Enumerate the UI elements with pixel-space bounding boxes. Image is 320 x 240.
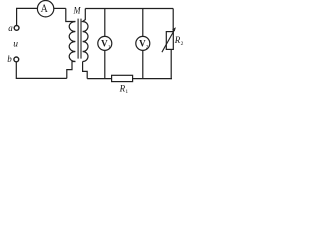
svg-text:M: M [73, 6, 82, 17]
wire secondary bottom rail right of R1 [133, 78, 172, 80]
transformer T secondary winding [83, 9, 88, 62]
wire primary bottom lead [67, 62, 76, 79]
voltmeter V1 [98, 36, 112, 50]
terminal b [14, 57, 19, 62]
voltmeter V2 [136, 36, 150, 50]
resistor R1 body [112, 75, 133, 81]
wire V2 branch top [142, 9, 144, 37]
svg-text:u: u [13, 40, 18, 50]
wire V1 branch top [104, 9, 106, 37]
transformer core [78, 19, 81, 59]
wire V1 branch bottom [104, 50, 106, 78]
transformer T primary winding [69, 22, 75, 62]
wire secondary bottom lead [83, 62, 88, 79]
wire primary top lead down [66, 8, 76, 21]
svg-text:1: 1 [125, 89, 128, 95]
svg-text:a: a [8, 23, 13, 33]
svg-text:b: b [7, 54, 12, 64]
svg-text:2: 2 [181, 41, 184, 47]
wire rheostat R2 bottom to bottom rail [170, 49, 173, 78]
terminal a [14, 26, 19, 31]
wire primary bottom rail [16, 62, 67, 79]
wire right edge down to rheostat R2 [172, 9, 174, 32]
wire V2 branch bottom [142, 50, 144, 78]
wire ammeter to transformer primary corner [54, 7, 66, 9]
rheostat R2 body [166, 32, 173, 50]
ammeter A [37, 1, 53, 17]
rheostat R2 arrow [162, 30, 175, 53]
wire top-left rail to ammeter [16, 7, 37, 9]
svg-text:A: A [41, 3, 49, 15]
wire secondary top rail [85, 8, 173, 10]
wire terminal a up to top rail [16, 8, 18, 25]
wire secondary bottom rail left of R1 [87, 78, 111, 80]
